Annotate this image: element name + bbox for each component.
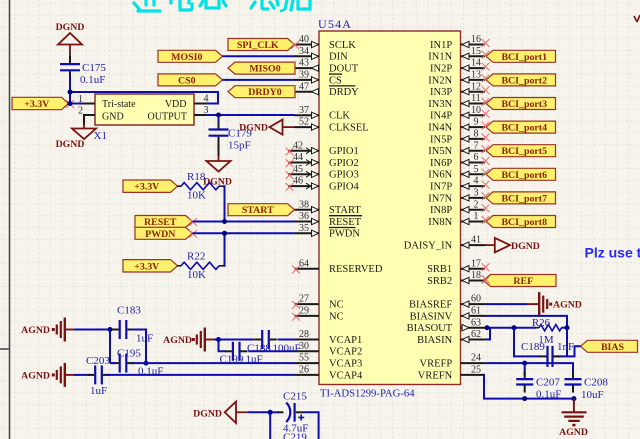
svg-text:IN2P: IN2P [430,64,452,75]
svg-text:C208: C208 [584,377,608,389]
capacitor C199 [225,342,248,361]
label 1uF (C183) [136,333,153,345]
svg-text:GPIO4: GPIO4 [329,182,360,193]
svg-text:24: 24 [471,353,481,364]
no-ERC marker SPI_CLK [291,41,299,49]
junction BIASOUT [485,325,490,330]
label DGND (DAISY_IN) [511,241,540,252]
svg-text:CLKSEL: CLKSEL [329,123,369,134]
label C189 [521,341,545,353]
pin 24 VREFP [420,353,485,370]
svg-text:4: 4 [474,176,479,187]
wire loop top right [131,330,146,364]
svg-text:NC: NC [329,311,344,322]
svg-text:GND: GND [102,112,124,123]
capacitor C208 [565,371,582,392]
svg-text:63: 63 [471,317,481,328]
pin 34 DIN [295,46,349,63]
svg-text:BCI_port5: BCI_port5 [501,146,547,157]
svg-text:37: 37 [299,105,309,116]
svg-text:SRB1: SRB1 [427,264,452,275]
svg-text:8: 8 [474,129,479,140]
svg-text:0.1uF: 0.1uF [80,74,105,86]
label AGND (C203) [21,370,50,381]
svg-text:39: 39 [299,70,309,81]
label C179 [228,128,252,140]
svg-text:IN7P: IN7P [430,182,452,193]
port SPI_CLK [228,39,295,52]
wire VREFN [484,375,574,399]
pin 43 DOUT [295,58,359,75]
power port +3.3V (X1) [12,97,69,110]
pin 55 VCAP3 [295,353,363,370]
resistor R22 [177,262,223,269]
svg-text:1uF: 1uF [90,385,107,397]
svg-text:27: 27 [299,294,309,305]
label 10uF (C208) [581,389,604,401]
svg-text:17: 17 [471,258,481,269]
svg-text:BCI_port4: BCI_port4 [501,123,547,134]
svg-text:RESERVED: RESERVED [329,264,383,275]
svg-text:IN5N: IN5N [428,146,452,157]
pin 47 DRDY [295,81,360,98]
label C199 [220,354,244,366]
port BIAS [581,340,638,353]
svg-text:IN3P: IN3P [430,87,452,98]
svg-text:RESET: RESET [329,217,362,228]
wire BIASINV [485,316,567,328]
label 0.1uF (C195) [138,366,163,378]
label AGND (BIASREF) [553,300,582,311]
wire C207 top lead [524,363,526,376]
wire BIASIN up [485,328,490,340]
pin 7 IN5N [428,140,489,157]
ground AGND (C203) [52,363,74,387]
svg-text:18: 18 [471,270,481,281]
svg-text:DGND: DGND [56,139,85,150]
svg-text:GPIO2: GPIO2 [329,158,359,169]
svg-text:IN7N: IN7N [428,193,452,204]
wire PWDN [193,232,295,234]
wire VDD loop [70,92,218,104]
svg-text:OUTPUT: OUTPUT [148,112,187,123]
svg-text:36: 36 [299,211,309,222]
ground AGND (BIASREF) [527,292,552,316]
pin 3 IN7N [428,188,489,205]
svg-text:MISO0: MISO0 [249,64,280,75]
wire VCAP1 [278,339,295,341]
capacitor C183 [112,320,135,339]
port START [228,204,295,217]
pin 60 BIASREF [409,294,485,311]
capacitor C207 [516,371,533,392]
wire +3.3V to X1 pin1 [68,103,84,105]
pin 18 SRB2 [427,270,489,287]
junction C207 top [522,361,527,366]
pin 26 VCAP4 [295,365,364,382]
svg-text:IN8P: IN8P [430,205,452,216]
junction R26 right [565,325,570,330]
ground AGND (C208) [562,399,587,427]
svg-text:IN6N: IN6N [428,170,452,181]
ground DGND (below X1) [72,125,96,140]
wire VCAP2 [248,350,294,352]
no-ERC marker at X1 pin1 [66,100,74,108]
svg-text:TI-ADS1299-PAG-64: TI-ADS1299-PAG-64 [320,388,415,400]
svg-text:AGND: AGND [553,300,582,311]
wire C219 branch [269,412,271,439]
label C215 [283,391,307,403]
wire down to C199 [219,340,227,352]
svg-text:64: 64 [299,258,309,269]
pin 62 BIASIN [417,329,485,346]
junction node CLK [216,113,221,118]
svg-text:IN1P: IN1P [430,40,452,51]
svg-text:BIASOUT: BIASOUT [407,323,453,334]
label DGND (below C179) [203,177,232,188]
pin 41 DAISY_IN [404,235,485,252]
oscillator X1 body [95,94,194,125]
label DGND (above C175) [56,22,85,33]
label 1uF (C203) [90,385,107,397]
svg-text:C189: C189 [521,341,545,353]
svg-text:26: 26 [299,365,309,376]
pin 36 RESET [295,211,363,228]
svg-text:CS: CS [329,75,342,86]
pin 6 IN6P [430,152,489,169]
svg-text:VDD: VDD [165,99,187,110]
svg-text:DRDY0: DRDY0 [248,87,282,98]
label C203 [86,355,110,367]
svg-text:PWDN: PWDN [145,229,175,240]
ground AGND (C183) [52,318,74,342]
svg-text:3: 3 [474,188,479,199]
clipped text mark [634,15,640,22]
svg-text:IN5P: IN5P [430,134,452,145]
svg-text:DAISY_IN: DAISY_IN [404,241,453,252]
wire OUTPUT to CLK [206,114,295,116]
svg-text:16: 16 [471,34,481,45]
X1 pin 3 [194,105,209,116]
label 0.1uF (C207) [536,389,561,401]
junction loop right [144,361,149,366]
pin 37 CLK [295,105,351,122]
label R22 [187,251,205,263]
svg-text:7: 7 [474,140,479,151]
label DGND (below X1) [56,139,85,150]
svg-text:C195: C195 [117,348,141,360]
svg-text:60: 60 [471,294,481,305]
svg-text:47: 47 [299,81,309,92]
svg-text:1uF: 1uF [246,354,263,366]
capacitor C188 [254,330,277,349]
ground AGND (C188) [192,328,214,352]
junction AGND3 [216,337,221,342]
wire DGND to C215 [248,411,270,413]
svg-text:1uF: 1uF [136,333,153,345]
port DRDY0 [228,86,295,99]
svg-text:40: 40 [299,34,309,45]
X1 pin 1 [78,94,95,105]
svg-text:DGND: DGND [193,409,222,420]
svg-text:BCI_port7: BCI_port7 [501,193,547,204]
wire VCAP3 [110,362,295,364]
svg-text:R22: R22 [187,251,205,263]
pin 38 START [295,199,362,216]
wire CS0 [223,79,295,81]
wire C189 loop [514,328,567,357]
svg-text:PWDN: PWDN [329,229,360,240]
svg-text:IN2N: IN2N [428,75,452,86]
svg-text:START: START [329,205,361,216]
pin 46 GPIO4 [286,176,360,193]
capacitor C179 [209,122,229,144]
power port +3.3V (R18) [123,180,178,193]
pin 30 VCAP2 [295,341,363,358]
svg-text:BIASREF: BIASREF [409,300,452,311]
svg-text:43: 43 [299,58,309,69]
svg-text:BCI_port8: BCI_port8 [501,217,547,228]
svg-text:2: 2 [474,199,479,210]
pin 52 CLKSEL [295,117,369,134]
label AGND (C188) [163,335,192,346]
pin 10 IN4P [430,105,489,122]
svg-text:1nF: 1nF [557,341,574,353]
svg-text:+3.3V: +3.3V [134,182,160,193]
label 1M [538,334,554,346]
pin 16 IN1P [430,34,489,51]
svg-text:46: 46 [293,176,303,187]
pin 1 IN8N [428,211,489,228]
svg-text:6: 6 [474,152,479,163]
pin 42 GPIO1 [286,140,359,157]
svg-text:C175: C175 [82,62,106,74]
svg-text:CLK: CLK [329,111,350,122]
svg-text:X1: X1 [94,130,107,142]
label R18 [187,171,206,183]
svg-text:62: 62 [471,329,481,340]
svg-text:REF: REF [513,276,533,287]
svg-text:IN4P: IN4P [430,111,452,122]
svg-text:VCAP3: VCAP3 [329,359,362,370]
svg-text:41: 41 [471,235,481,246]
label 0.1uF [80,74,105,86]
pin 15 IN1N [428,46,489,63]
wire R18 to RESET [223,186,225,221]
wire BIAS [567,346,581,356]
pin 27 NC [292,294,343,311]
label DGND (C215) [193,409,222,420]
wire down to C179 [218,115,220,122]
label 15pF [228,140,251,152]
svg-text:SCLK: SCLK [329,40,356,51]
svg-text:BIASIN: BIASIN [417,335,452,346]
port MOSI0 [158,50,223,63]
port BCI_port6 [486,168,556,181]
svg-text:13: 13 [471,70,481,81]
svg-text:BCI_port2: BCI_port2 [501,75,547,86]
wire BIASREF [485,303,527,305]
label AGND (C208) [559,427,588,438]
label R26 [532,317,551,329]
designator X1 [94,130,107,142]
capacitor C215 [277,403,304,422]
label C183 [117,305,141,317]
svg-text:C203: C203 [86,355,110,367]
port MISO0 [228,62,295,75]
svg-text:Tri-state: Tri-state [102,99,136,110]
svg-text:VREFN: VREFN [418,370,453,381]
svg-text:1: 1 [474,211,479,222]
wire loop left [109,330,111,364]
pin 28 VCAP1 [295,329,363,346]
svg-text:AGND: AGND [21,370,50,381]
svg-text:VREFP: VREFP [420,359,453,370]
capacitor C189 [540,346,561,367]
label C207 [536,377,560,389]
svg-text:IN1N: IN1N [428,52,452,63]
svg-text:34: 34 [299,46,309,57]
pin 5 IN6N [428,164,489,181]
svg-text:VCAP2: VCAP2 [329,347,362,358]
capacitor C203 [87,365,110,384]
junction C208 bottom [571,396,576,401]
svg-text:SPI_CLK: SPI_CLK [237,40,279,51]
pin 8 IN5P [430,129,489,146]
svg-text:45: 45 [293,164,303,175]
svg-text:VCAP1: VCAP1 [329,335,362,346]
svg-text:44: 44 [293,152,303,163]
pin 25 VREFN [418,365,485,382]
svg-text:BIAS: BIAS [601,342,625,353]
port RESET [135,216,193,229]
no-ERC marker RESET [189,218,197,226]
svg-text:52: 52 [299,117,309,128]
svg-text:+3.3V: +3.3V [134,261,160,272]
svg-text:NC: NC [329,300,344,311]
label 4.7uF [283,423,308,435]
pin 29 NC [292,306,343,323]
no-ERC marker REF [482,276,490,284]
port BCI_port8 [486,216,556,229]
pin 63 BIASOUT [407,317,485,334]
svg-text:28: 28 [299,329,309,340]
port BCI_port4 [486,121,556,134]
svg-text:IN8N: IN8N [428,217,452,228]
label 10K (R22) [187,269,206,281]
junction C207 bottom [522,396,527,401]
svg-text:R26: R26 [532,317,551,329]
junction node pin1 [68,101,73,106]
pin 11 IN3N [428,93,489,110]
svg-text:AGND: AGND [21,325,50,336]
svg-text:15pF: 15pF [228,140,251,152]
svg-text:DGND: DGND [511,241,540,252]
svg-text:SRB2: SRB2 [427,276,452,287]
svg-text:BIASINV: BIASINV [410,311,453,322]
svg-text:DOUT: DOUT [329,64,359,75]
svg-text:38: 38 [299,199,309,210]
svg-text:BCI_port6: BCI_port6 [501,170,547,181]
port REF [484,275,557,288]
pin 13 IN2N [428,70,489,87]
svg-text:BCI_port1: BCI_port1 [501,52,547,63]
port BCI_port5 [486,145,556,158]
svg-text:10: 10 [471,105,481,116]
svg-text:29: 29 [299,306,309,317]
junction R26 left [512,325,517,330]
capacitor C195 [112,354,135,373]
ground DGND (below C179) [207,156,231,172]
pin 9 IN4N [428,117,489,134]
wire C175 to +3.3V node [69,76,71,104]
svg-text:+3.3V: +3.3V [24,99,50,110]
label 1nF [557,341,574,353]
label C208 [584,377,608,389]
wire VREFP [485,363,573,376]
svg-text:9: 9 [474,117,479,128]
wire C215 left lead [270,411,279,413]
svg-text:MOSI0: MOSI0 [171,52,202,63]
pin 17 SRB1 [427,258,489,275]
svg-text:42: 42 [293,140,303,151]
pin 4 IN7P [430,176,489,193]
X1 pin 4 [194,94,209,105]
wire C179 to ground [218,141,220,156]
port PWDN [135,227,193,240]
label DGND (CLKSEL) [239,123,268,134]
svg-text:100uF: 100uF [273,343,301,355]
power port +3.3V (R22) [123,260,178,273]
label 10K (R18) [187,190,206,202]
pin 61 BIASINV [410,306,485,323]
svg-text:BCI_port3: BCI_port3 [501,99,547,110]
junction RESET [222,219,227,224]
svg-text:IN6P: IN6P [430,158,452,169]
pin 44 GPIO2 [286,152,359,169]
svg-text:DRDY: DRDY [329,87,359,98]
wire AGND to loop [74,329,110,331]
svg-text:GPIO3: GPIO3 [329,170,359,181]
svg-text:IN4N: IN4N [428,123,452,134]
wire to C188 [219,339,255,341]
no-ERC marker PWDN [189,230,197,238]
wire R26 right lead [562,327,568,329]
wire X1 pin2 down [84,115,95,125]
svg-text:C207: C207 [536,377,560,389]
label 1uF (C199) [246,354,263,366]
annotation Plz use [585,245,640,261]
wire VCAP4 [107,374,295,376]
svg-text:10K: 10K [187,269,206,281]
svg-text:IN3N: IN3N [428,99,452,110]
label AGND (C183) [21,325,50,336]
wire AGND3 [214,339,219,341]
ground DGND (C215) [225,402,248,423]
svg-text:VCAP4: VCAP4 [329,370,363,381]
svg-text:35: 35 [299,223,309,234]
svg-text:R18: R18 [187,171,206,183]
X1 pin 2 [78,106,95,117]
svg-text:CS0: CS0 [178,75,196,86]
svg-text:Plz use t: Plz use t [585,245,640,261]
svg-text:START: START [242,205,274,216]
annotation cyan text (cropped) [134,0,310,11]
svg-text:DGND: DGND [56,22,85,33]
svg-text:C199: C199 [220,354,244,366]
wire AGND2 to C203 [74,374,90,376]
svg-text:AGND: AGND [559,427,588,438]
